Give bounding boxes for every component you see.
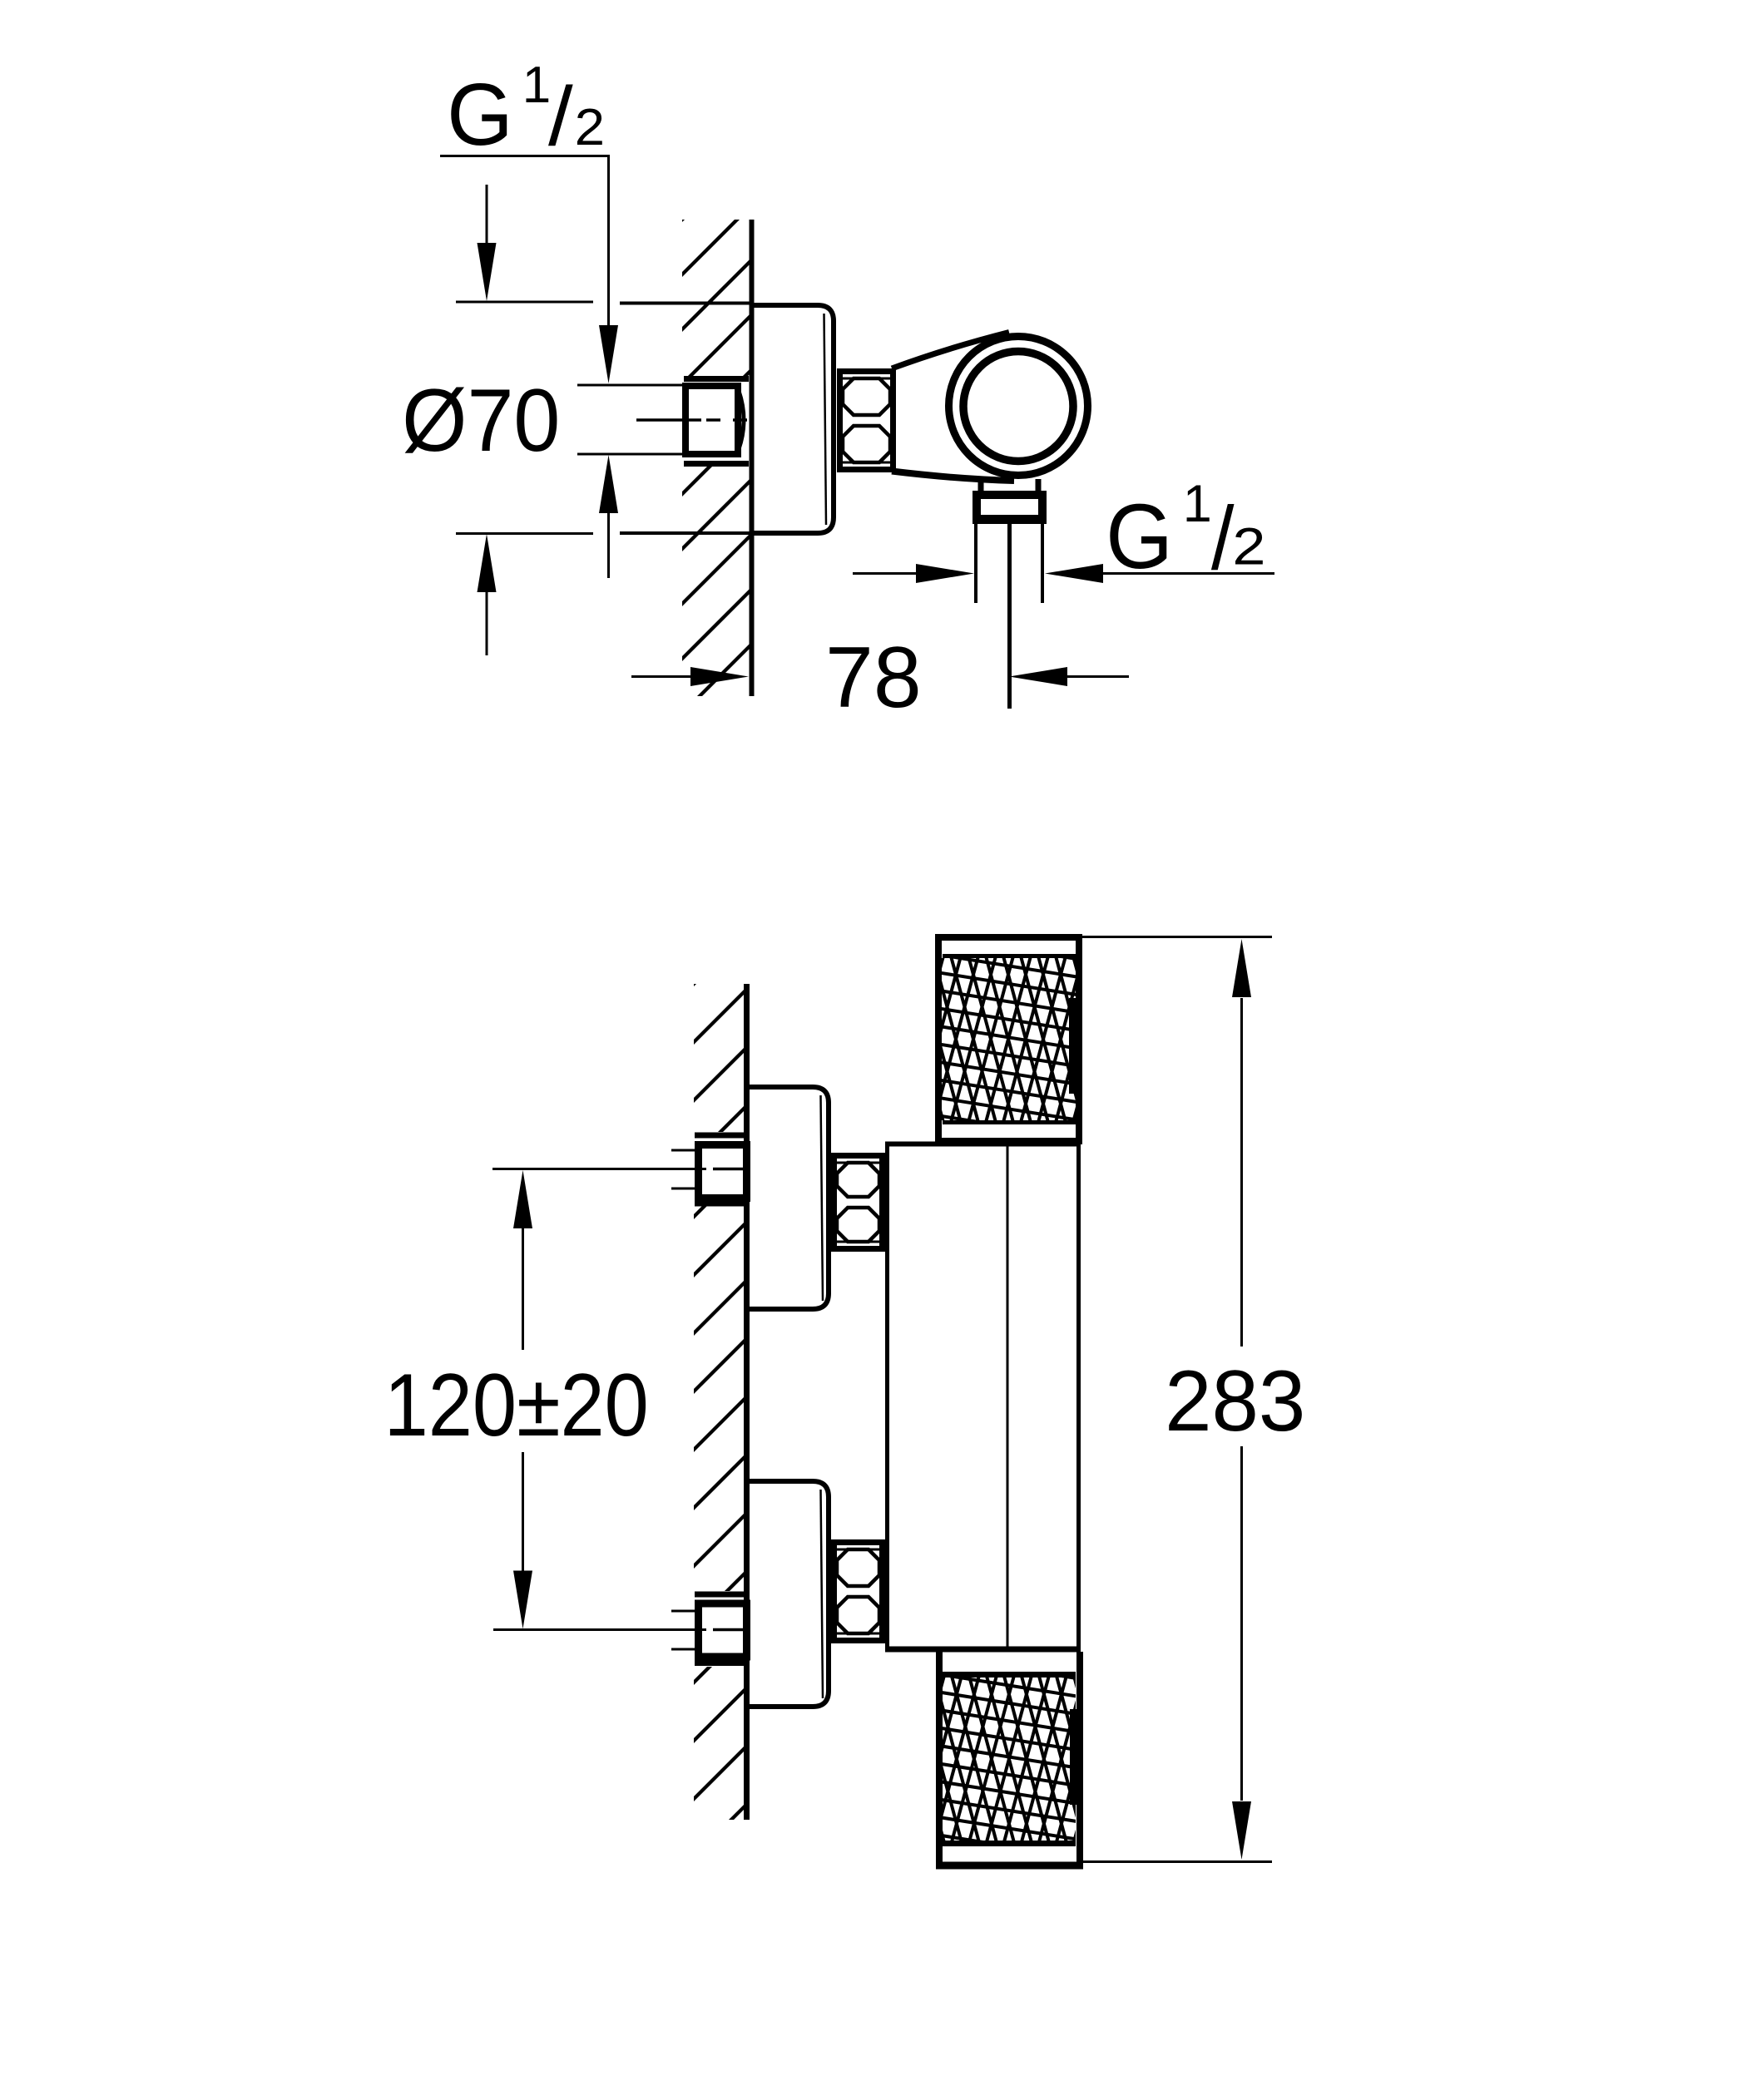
knob inner circle top view	[963, 352, 1073, 462]
wall union nipple top view	[684, 379, 749, 464]
extension line 283 top	[1082, 936, 1272, 938]
valve body front view	[885, 1144, 1081, 1650]
upper union nut front view	[834, 1155, 883, 1249]
upper escutcheon front view	[747, 1087, 829, 1309]
svg-text:G: G	[1106, 485, 1173, 587]
svg-text:120±20: 120±20	[384, 1356, 649, 1455]
svg-text:2: 2	[1232, 518, 1265, 576]
svg-text:G: G	[447, 66, 513, 164]
knob outer circle top view	[949, 337, 1088, 476]
top knurled knob front view	[880, 934, 1136, 1156]
wall hatching front view	[690, 931, 747, 1919]
svg-text:283: 283	[1165, 1352, 1305, 1449]
svg-text:/: /	[1211, 487, 1235, 588]
valve body cone top view	[892, 333, 1014, 482]
upper inlet pipe stubs	[671, 1150, 695, 1188]
wall line front view	[744, 984, 750, 1820]
label dia70	[402, 371, 560, 470]
dimension line dia70	[478, 185, 497, 655]
upper inlet centerline	[492, 1168, 744, 1170]
dimension line 120pm20	[513, 1170, 532, 1629]
svg-text:/: /	[548, 69, 573, 162]
union nut top view	[840, 371, 893, 470]
label G 1/2 right	[1106, 475, 1265, 588]
hose pipe top view	[976, 523, 1042, 603]
label 120pm20	[384, 1356, 649, 1455]
dimension line 78	[631, 667, 1129, 686]
upper wall nipple front view	[695, 1135, 747, 1203]
svg-text:1: 1	[1183, 475, 1212, 533]
lower inlet centerline	[493, 1628, 744, 1631]
escutcheon flange top view	[754, 305, 834, 533]
supply pipe outline	[577, 385, 683, 454]
label G 1/2 top	[440, 57, 610, 164]
lower escutcheon front view	[747, 1481, 829, 1707]
outlet stub top view	[981, 477, 1038, 492]
svg-text:Ø70: Ø70	[402, 371, 560, 470]
lower inlet pipe stubs	[671, 1611, 695, 1649]
label 78	[825, 630, 922, 726]
outlet collar top view	[973, 491, 1047, 524]
lower union nut front view	[834, 1542, 883, 1641]
wall line top view	[750, 220, 755, 696]
svg-text:78: 78	[825, 630, 922, 726]
label 283	[1165, 1352, 1305, 1449]
extension line dia70 bottom	[456, 532, 750, 536]
lower wall nipple front view	[695, 1594, 747, 1663]
bottom knurled knob front view	[881, 1652, 1137, 1875]
dimension line G 1/2 top	[599, 156, 618, 579]
inlet centerline top view	[636, 418, 747, 422]
svg-text:2: 2	[575, 98, 605, 156]
wall hatching top view	[679, 149, 753, 827]
dimension line 283	[1232, 939, 1251, 1860]
svg-text:1: 1	[522, 57, 551, 114]
hose centerline top view	[1007, 523, 1012, 709]
extension line 283 bottom	[1083, 1860, 1272, 1863]
extension line dia70 top	[456, 302, 750, 304]
dimension line G 1/2 right	[853, 564, 1274, 583]
